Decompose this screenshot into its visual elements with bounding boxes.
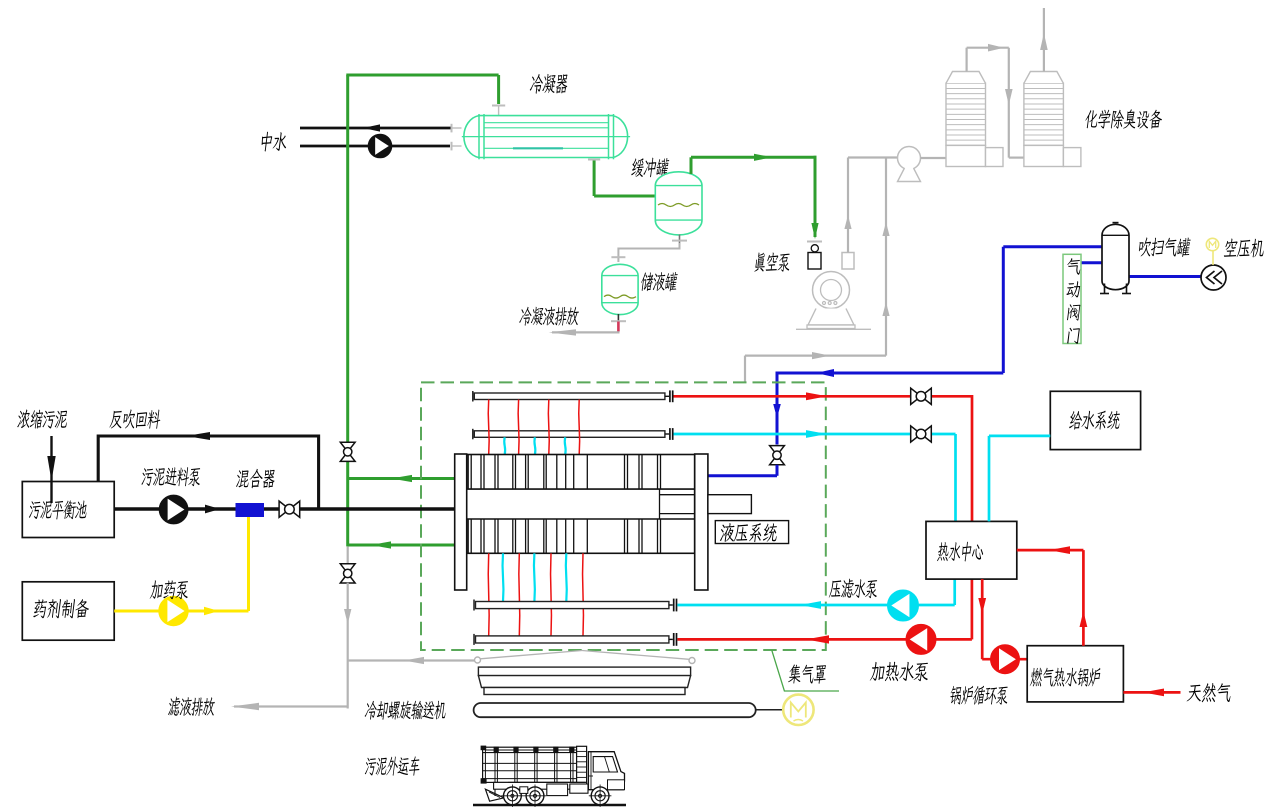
water supply box 给水系统 [1050,391,1140,449]
valve V2 on filtrate line [340,564,355,583]
filter press body with plates [467,455,695,554]
pump P6 污泥进料泵 [160,496,188,524]
valve V1 on green main [340,442,355,461]
buffer tank bottom nozzle [672,235,687,244]
label 燃气热水锅炉 [1030,668,1101,687]
label 压滤水泵 [829,579,879,599]
wire gray below green junction [347,546,349,564]
label 缓冲罐 [631,158,670,178]
condenser E1 shell [462,114,630,159]
hood suspension [475,651,696,664]
wire green top run to condenser [346,75,498,104]
pump P5 锅炉循环泵 [991,645,1019,673]
vacuum pump P2 body [796,253,871,330]
tower T1 deodorization [946,72,1003,167]
sludge truck [473,746,626,807]
wire yellow dosing line [114,517,248,615]
filter press right column [695,454,708,590]
wire gray condensate discharge [549,329,620,335]
label 化学除臭设备 [1084,109,1163,129]
condenser top nozzle [492,106,505,116]
wire green lower press suction [348,541,455,548]
valve V5 on cyan line [911,426,932,442]
red drip lines below press [488,553,583,636]
purge tank 吹扫气罐 vessel [1100,223,1131,294]
wire gray tower1 to tower2 [967,44,1024,158]
wire red supply down to hot water center [971,395,974,521]
boiler box 燃气热水锅炉 [1027,646,1123,702]
buffer tank V1 vessel [655,172,702,235]
wire gray vacuum discharge up [844,158,897,253]
pump P4 加热水泵 [907,625,936,654]
wire cyan filter press water [677,579,954,609]
label 真空泵 [754,253,791,272]
label 空压机 [1224,239,1265,258]
screw conveyor tube [474,703,756,717]
collection trough [478,667,690,694]
label 锅炉循环泵 [949,686,1009,705]
gas collection enclosure dashed box [421,382,826,650]
wire red to circulation pump [978,579,1027,659]
wire red hot water supply [674,392,973,400]
label 反吹回料 [109,409,161,428]
label 中水 [260,132,288,152]
label 药剂制备 [33,599,90,618]
compressor C1 空压机 [1201,265,1226,290]
wire red boiler to hot water center [1017,546,1088,646]
label 冷却螺旋输送机 [364,701,447,720]
pump P3 压滤水泵 [888,591,918,621]
wire blue tank to compressor [1129,275,1202,278]
label 加热水泵 [870,662,930,682]
valve V3 on blue line [770,446,785,465]
pump P7 加药泵 [159,597,187,625]
valve V4 on red supply [911,388,932,404]
wire gray drain buffer to storage [611,243,679,262]
manifold bar M1 [473,390,673,402]
label 冷凝器 [529,74,568,94]
buffer tank level wave [658,204,699,207]
label 热水中心 [937,542,984,562]
wire green upper press suction [348,475,455,482]
wire gray hood suction [348,657,475,664]
manifold bar M4 [474,633,677,646]
wire red heating water return [677,579,972,644]
wire blue air to purge tank [777,247,1102,377]
wire black sludge feed line [114,505,455,514]
wire black concentrated sludge inlet [47,436,55,503]
wire cyan warm water line [674,430,956,438]
label 浓缩污泥 [17,409,68,428]
label 加药泵 [150,580,190,599]
wire green buffer tank outlet to vacuum pump [691,154,819,239]
label 气动阀门 vertical [1066,258,1082,344]
conveyor motor link [756,709,784,711]
condenser bottom nozzle [588,159,600,161]
sludge balance pool box 污泥平衡池 [22,482,114,538]
storage tank bottom nozzle [611,314,626,332]
manifold bar M3 [474,599,677,612]
wire gray exhaust stack [1040,8,1048,72]
wire blue down to press valve [773,372,781,445]
filter press left column [455,454,467,590]
fan B1 blower [898,147,947,182]
storage tank V2 vessel [602,264,638,314]
label 污泥进料泵 [141,467,202,486]
label 污泥平衡池 [28,500,87,519]
mixer 混合器 [236,503,265,517]
wire gray filtrate discharge [231,703,348,710]
wire cyan from water supply [989,436,1050,522]
hot water center box 热水中心 [926,521,1017,579]
leader line 集气罩 [772,650,839,691]
storage tank level wave [604,295,636,298]
wire gray hood exhaust duct [745,158,890,382]
condenser left nozzles [452,124,462,151]
chemical prep box 药剂制备 [22,582,114,640]
cyan drip lines below press [503,553,567,601]
label 吹扫气罐 [1138,237,1191,257]
label 储液罐 [640,272,678,292]
wire green vapor main vertical [346,75,349,546]
red feeder drops to press [488,400,579,455]
hydraulic piston rod [708,495,752,514]
cyan feeder drips top [504,437,565,454]
wire cyan down to hot water center [954,434,957,521]
wire black supply line from zhongshui [300,145,450,148]
label 集气罩 [788,664,828,683]
label 混合器 [236,469,276,489]
valve V6 on feed line [279,501,300,517]
conveyor motor M [783,695,813,725]
label 给水系统 [1069,411,1121,430]
label 滤液排放 [168,697,216,717]
label 冷凝液排放 [519,307,580,326]
tower T2 deodorization [1024,72,1081,167]
wire green condenser outlet [594,160,655,197]
hydraulic system box 液压系统 [715,521,788,544]
wire gray filtrate main [344,583,351,709]
label 液压系统 [720,523,779,542]
label 污泥外运车 [364,756,421,775]
pump P1 reclaimed water pump [369,135,392,158]
manifold bar M2 [473,428,673,440]
pneumatic valve 气动阀门 box [1063,254,1081,343]
wire red natural gas [1123,689,1180,697]
vacuum pump inlet fitting [807,242,822,270]
compressor motor symbol [1206,238,1218,265]
wire black blowback return [98,432,318,509]
wire blue into press [708,465,777,476]
label 天然气 [1187,683,1232,702]
wire blue pneumatic valve to tank [1081,261,1102,264]
wire black return line to zhongshui [300,124,452,131]
